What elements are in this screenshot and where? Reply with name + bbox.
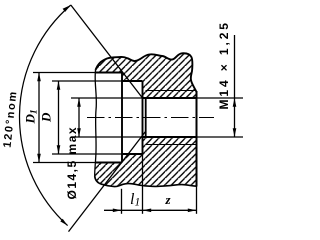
bottom break outline (wavy) [95,176,197,187]
bottom dimension line [104,209,197,211]
z left arrow (points left) [143,209,152,213]
counterbore top edge [122,80,143,82]
body top outline (broken-out freehand edge) [96,53,197,92]
120deg dimension arc [20,5,71,226]
thread major bottom line (thin) [146,144,197,146]
spot face (gasket seat) vertical edge [121,73,123,163]
top shoulder edge of spot face D1 [96,72,123,74]
D dimension line [58,81,60,154]
M14 extension line bottom [197,136,244,138]
counterbore bottom edge [122,153,143,155]
counterbore bottom face vertical [142,81,144,154]
svg-text:M14 × 1,25: M14 × 1,25 [217,20,231,109]
svg-text:z: z [165,192,172,207]
M14 dimension line [234,35,236,137]
bore top line (thread minor) [143,97,197,99]
D extension line top [52,80,122,82]
arc arrowhead bottom [60,219,67,226]
M14 extension line top [197,97,244,99]
M14 arrow bottom [233,128,237,137]
thread end line (thin vertical) [145,98,147,137]
D arrow bottom [57,145,61,154]
D arrow top [57,81,61,90]
arc arrowhead top [63,5,71,12]
M14 arrow top [233,98,237,107]
dia 14.5 dimension line [78,98,80,137]
l1 outside arrow (points right) [113,209,122,213]
hatched section upper region [96,53,197,98]
z right extension line [196,187,198,214]
dia 14.5 extension line bottom [71,136,143,138]
left break line (wavy) [95,70,97,176]
bottom shoulder edge of spot face D1 [96,162,123,164]
z right arrow (points right) [188,209,197,213]
D1 dimension line [38,73,40,163]
bore bottom line (thread minor) [143,136,197,138]
centerline (dash-dot axis) [87,117,214,119]
l1 extension line left [121,189,123,214]
dia 14.5 extension line top [71,97,143,99]
D1 extension line bottom [33,162,96,164]
D1 arrow top [37,73,41,82]
svg-text:D: D [39,112,54,123]
right face edge of body [196,91,198,187]
l1 / z shared extension line [142,154,144,214]
D extension line bottom [52,153,122,155]
dia 14.5 arrow top [77,98,81,107]
D1 extension line top [33,72,96,74]
hatched section lower region [95,137,197,187]
120deg lower extension line (collinear with countersink edge) [69,132,146,232]
D1 arrow bottom [37,154,41,163]
dia 14.5 arrow bottom [77,128,81,137]
thread major top line (thin) [146,90,197,92]
svg-text:Ø14,5 max: Ø14,5 max [65,126,79,200]
120deg upper extension line (collinear with countersink edge) [71,5,143,98]
